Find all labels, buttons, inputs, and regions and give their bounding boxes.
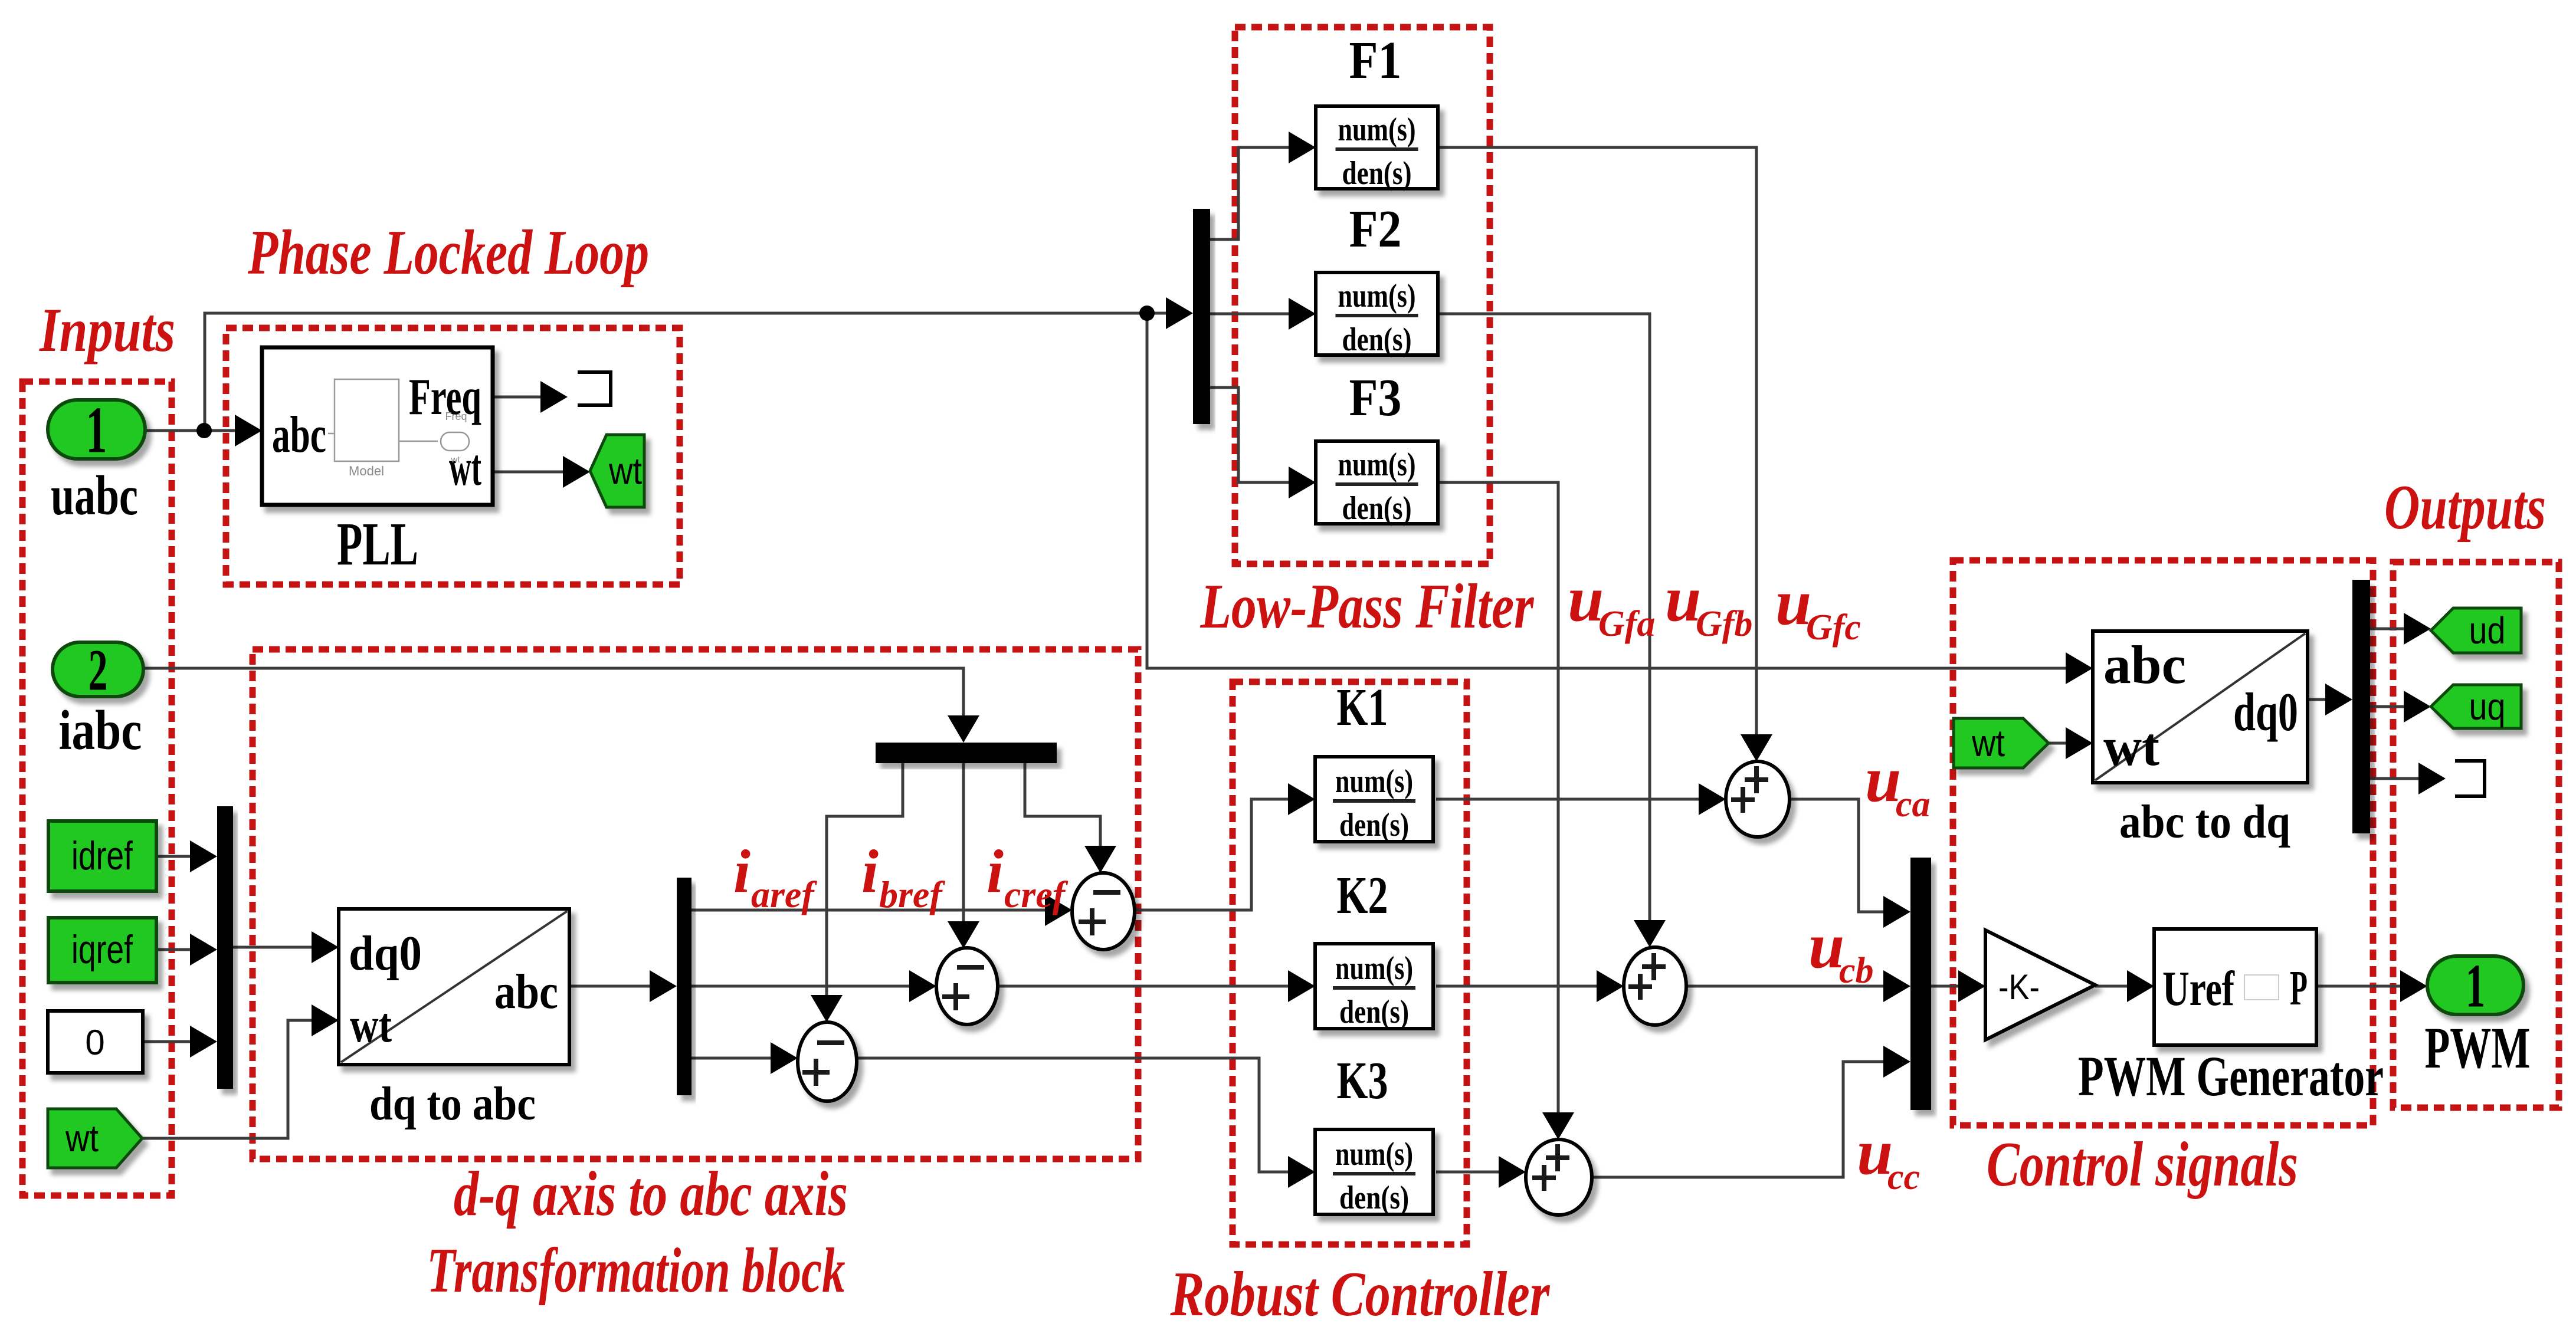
constant 0: [48, 1011, 143, 1073]
wire demux to uq: [2370, 705, 2405, 708]
wire K3 out to sum C: [1436, 1171, 1500, 1174]
svg-text:2: 2: [89, 638, 108, 703]
svg-text:den(s): den(s): [1339, 994, 1409, 1030]
wire F2 out to sum B top: [1438, 314, 1650, 921]
wire uabc down to abc-to-dq: [1147, 320, 2067, 668]
mux bar control: [1910, 858, 1931, 1110]
section box Robust Controller: [1233, 682, 1467, 1244]
svg-text:wt: wt: [1971, 722, 2005, 764]
mux bar inputs: [217, 806, 233, 1089]
svg-text:Outputs: Outputs: [2384, 472, 2546, 543]
svg-text:ud: ud: [2469, 609, 2506, 652]
wire sum S3 to K3: [857, 1058, 1289, 1172]
svg-text:Robust Controller: Robust Controller: [1170, 1259, 1551, 1327]
svg-text:0: 0: [85, 1023, 104, 1062]
sum A uca: [1726, 761, 1790, 837]
wire mux to F2: [1210, 313, 1290, 316]
signal label icref: [987, 838, 1069, 915]
wire mux to gain: [1931, 985, 1959, 988]
mux bar LPF: [1193, 209, 1210, 424]
svg-text:PWM Generator: PWM Generator: [2078, 1045, 2384, 1108]
svg-text:K2: K2: [1337, 866, 1388, 925]
demux bar dq-to-abc: [677, 878, 691, 1095]
goto tag uq: [2431, 685, 2521, 728]
svg-text:wt: wt: [2103, 717, 2159, 777]
wire mux to F3: [1210, 387, 1290, 482]
svg-text:Inputs: Inputs: [38, 295, 175, 364]
svg-text:Gfc: Gfc: [1806, 607, 1861, 648]
svg-text:num(s): num(s): [1338, 446, 1416, 483]
svg-text:K1: K1: [1337, 678, 1388, 737]
svg-text:cref: cref: [1004, 873, 1069, 915]
svg-text:Gfb: Gfb: [1696, 604, 1752, 644]
junction dot top: [1139, 306, 1155, 321]
signal label uGfa: [1568, 563, 1655, 644]
svg-text:-K-: -K-: [1998, 967, 2040, 1007]
svg-text:den(s): den(s): [1339, 1180, 1409, 1216]
svg-text:uabc: uabc: [51, 464, 138, 527]
svg-text:idref: idref: [71, 833, 133, 878]
gain -K-: [1985, 930, 2095, 1040]
wire iabc to split bar: [143, 668, 963, 717]
transfer fn F1: [1316, 106, 1438, 189]
svg-text:Transformation block: Transformation block: [427, 1236, 845, 1306]
svg-text:ca: ca: [1896, 784, 1931, 825]
wire ucb sum B to mux: [1686, 985, 1885, 988]
wire uabc to junction and PLL: [145, 429, 236, 432]
svg-text:den(s): den(s): [1339, 807, 1409, 843]
svg-text:dq0: dq0: [2233, 682, 2298, 742]
wire K2 out to sum B: [1436, 985, 1598, 988]
svg-text:abc: abc: [2103, 635, 2186, 695]
svg-text:1: 1: [2466, 951, 2486, 1020]
svg-text:i: i: [861, 838, 879, 905]
wire demux row1 iaref: [691, 909, 1046, 912]
sum S1 icref: [1072, 873, 1135, 950]
svg-text:Model: Model: [349, 464, 384, 478]
svg-text:iabc: iabc: [59, 699, 142, 761]
svg-text:den(s): den(s): [1342, 155, 1412, 192]
inport 2: [53, 642, 143, 697]
svg-text:num(s): num(s): [1335, 950, 1413, 987]
wire demux to ud: [2370, 628, 2405, 630]
sum S2 ibref: [936, 948, 998, 1024]
wire split to sum S1: [1025, 763, 1100, 847]
section box Inputs: [22, 382, 172, 1196]
svg-text:K3: K3: [1337, 1052, 1388, 1110]
svg-text:PWM: PWM: [2425, 1015, 2531, 1081]
svg-text:abc: abc: [272, 406, 326, 464]
block PLL: [262, 347, 493, 505]
wire iqref to mux: [156, 948, 191, 951]
sum B ucb: [1624, 947, 1686, 1025]
signal label iaref: [733, 838, 817, 915]
svg-text:dq0: dq0: [349, 926, 422, 981]
svg-text:aref: aref: [751, 873, 817, 915]
svg-text:bref: bref: [879, 873, 945, 915]
wire const 0 to mux: [143, 1040, 191, 1043]
svg-text:abc: abc: [494, 964, 558, 1019]
svg-text:wt: wt: [451, 455, 461, 465]
wire uca sum A to mux: [1790, 799, 1885, 912]
svg-text:d-q axis to abc axis: d-q axis to abc axis: [454, 1159, 848, 1229]
wire split to sum S3: [827, 763, 903, 996]
wire abc-to-dq out: [2308, 698, 2326, 701]
transfer fn F2: [1316, 272, 1438, 355]
svg-text:F2: F2: [1349, 200, 1402, 258]
svg-text:Control signals: Control signals: [1987, 1129, 2298, 1200]
section box Transformation: [253, 649, 1138, 1159]
wire wt tag to dq-to-abc: [142, 1020, 313, 1138]
demux bar outputs: [2352, 580, 2370, 833]
section box Outputs: [2393, 562, 2559, 1108]
svg-text:iqref: iqref: [71, 927, 133, 972]
section box PLL: [226, 328, 680, 584]
svg-text:num(s): num(s): [1338, 278, 1416, 314]
wire PLL wt out: [493, 471, 564, 474]
goto tag wt: [590, 435, 644, 507]
signal label ibref: [861, 838, 945, 915]
block dq to abc: [339, 909, 569, 1065]
svg-text:F1: F1: [1349, 31, 1402, 90]
wire sum S2 to K2: [998, 985, 1289, 988]
transfer fn F3: [1316, 441, 1438, 524]
inport 1: [48, 400, 145, 459]
wire demux row2 ibref: [691, 985, 910, 988]
wire PLL Freq out: [493, 396, 542, 399]
wire ucc sum C to mux: [1592, 1062, 1885, 1177]
svg-text:abc to dq: abc to dq: [2119, 796, 2290, 848]
wire idref to mux: [156, 855, 191, 858]
wire F1 out to sum A top: [1438, 147, 1756, 735]
svg-text:den(s): den(s): [1342, 321, 1412, 358]
sum C ucc: [1526, 1139, 1592, 1215]
svg-text:Phase Locked Loop: Phase Locked Loop: [247, 218, 649, 288]
wire PWM Generator to PWM port: [2316, 985, 2401, 988]
transfer fn K3: [1315, 1129, 1433, 1214]
wire mux to dq-to-abc: [233, 946, 313, 949]
svg-text:i: i: [987, 838, 1004, 905]
svg-text:dq to abc: dq to abc: [369, 1078, 536, 1130]
svg-text:1: 1: [86, 394, 107, 467]
transfer fn K1: [1315, 757, 1433, 842]
svg-text:wt: wt: [65, 1117, 99, 1160]
signal label ucb: [1808, 909, 1874, 991]
svg-text:num(s): num(s): [1335, 763, 1413, 800]
from tag wt input: [48, 1109, 142, 1168]
svg-text:uq: uq: [2469, 685, 2506, 728]
wire uabc up and across top: [205, 313, 1167, 424]
svg-text:cb: cb: [1839, 951, 1874, 991]
svg-text:P: P: [2290, 961, 2308, 1016]
svg-text:wt: wt: [608, 450, 642, 492]
svg-text:num(s): num(s): [1338, 111, 1416, 148]
constant idref: [48, 821, 156, 891]
svg-text:cc: cc: [1887, 1157, 1920, 1197]
svg-text:Uref: Uref: [2162, 961, 2235, 1016]
junction dot uabc: [196, 423, 212, 438]
terminator PLL Freq: [578, 372, 611, 405]
svg-text:num(s): num(s): [1335, 1136, 1413, 1173]
signal label uca: [1865, 743, 1931, 825]
wire split to sum S2: [962, 763, 965, 922]
wire demux row3 icref: [691, 1057, 772, 1060]
sum S3 iaref: [798, 1022, 857, 1101]
wire gain to PWM Generator: [2095, 985, 2128, 988]
svg-text:den(s): den(s): [1342, 490, 1412, 527]
section box Low-Pass Filter: [1235, 27, 1490, 564]
svg-text:PLL: PLL: [337, 510, 418, 578]
wire dq-to-abc to demux: [569, 985, 651, 988]
transfer fn K2: [1315, 944, 1433, 1029]
block abc to dq: [2093, 631, 2308, 783]
constant iqref: [48, 918, 156, 983]
from tag wt control: [1954, 718, 2049, 768]
goto tag ud: [2431, 608, 2521, 653]
signal label uGfc: [1775, 566, 1861, 648]
wire mux to F1: [1210, 147, 1290, 239]
outport 1 PWM: [2427, 956, 2523, 1014]
svg-text:Freq: Freq: [445, 411, 467, 422]
svg-text:wt: wt: [350, 998, 392, 1053]
svg-text:Gfa: Gfa: [1598, 604, 1655, 644]
svg-text:Low-Pass Filter: Low-Pass Filter: [1200, 572, 1535, 642]
wire K1 out to sum A: [1436, 798, 1700, 801]
svg-text:F3: F3: [1349, 369, 1402, 427]
signal label ucc: [1857, 1116, 1920, 1197]
block PWM Generator: [2154, 929, 2316, 1045]
wire F3 out to sum C top: [1438, 482, 1558, 1114]
signal label uGfb: [1665, 563, 1752, 644]
section box Control signals: [1953, 560, 2373, 1125]
split bar iabc: [876, 743, 1057, 763]
terminator outputs: [2455, 761, 2485, 796]
wire demux to terminator: [2370, 777, 2420, 780]
wire sum S1 to K1: [1135, 799, 1289, 910]
svg-text:i: i: [733, 838, 750, 905]
wire wt tag to abc-to-dq: [2049, 742, 2067, 745]
